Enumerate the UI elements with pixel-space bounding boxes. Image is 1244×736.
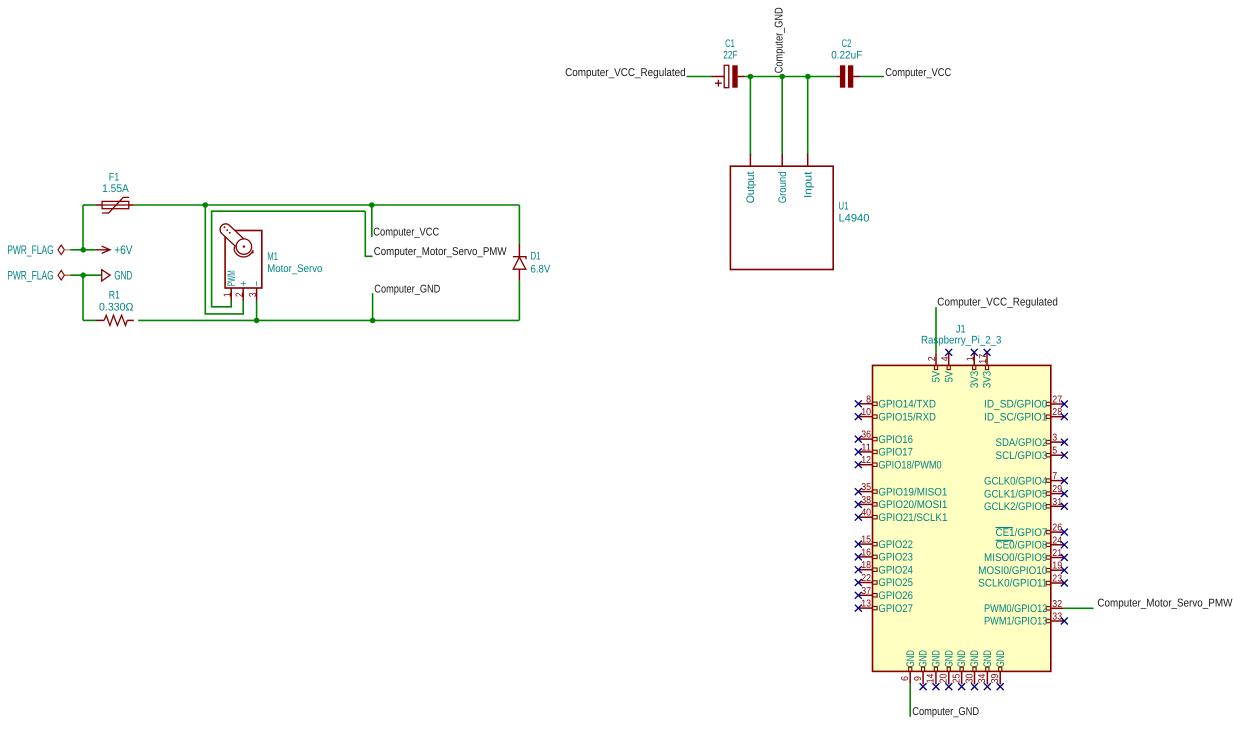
- no-connect J1 pin 15: [855, 541, 862, 548]
- no-connect J1 pin 4: [945, 349, 952, 356]
- svg-text:3: 3: [248, 292, 259, 297]
- power symbol +6V: [96, 246, 110, 253]
- U1 pin Ground: [781, 154, 783, 166]
- J1 pin 29 GCLK1/GPIO5: [1051, 493, 1064, 495]
- J1 pin 6 GND: [909, 671, 911, 684]
- no-connect J1 pin 33: [1061, 618, 1068, 625]
- C1 pin 2: [738, 76, 745, 78]
- wire D1 to bottom rail: [518, 281, 520, 321]
- J1 pin 18 GPIO24: [859, 569, 872, 571]
- svg-text:21: 21: [1052, 548, 1062, 559]
- wire C1 to C2 bus: [745, 76, 837, 78]
- svg-text:Computer_GND: Computer_GND: [374, 284, 440, 296]
- svg-text:M1: M1: [267, 251, 278, 263]
- J1 pin 3 SDA/GPIO2: [1051, 441, 1064, 443]
- no-connect J1 pin 23: [1061, 580, 1068, 587]
- wire PWR_FLAG to +6V: [70, 249, 96, 251]
- svg-text:GND: GND: [995, 650, 1007, 667]
- J1 pin 12 GPIO18/PWM0: [859, 464, 872, 466]
- svg-text:C2: C2: [842, 38, 852, 50]
- M1 pin 2 (+): [242, 288, 244, 301]
- C2 pin 2: [853, 76, 860, 78]
- J1 pin 11 GPIO17: [859, 451, 872, 453]
- power symbol GND: [102, 270, 110, 281]
- J1 pin 23 SCLK0/GPIO11: [1051, 582, 1064, 584]
- wire left rail lower vertical: [82, 275, 84, 320]
- no-connect J1 pin 35: [855, 488, 862, 495]
- svg-text:PWM1/GPIO13: PWM1/GPIO13: [984, 616, 1047, 628]
- no-connect J1 pin 37: [855, 592, 862, 599]
- svg-text:Computer_GND: Computer_GND: [912, 706, 979, 718]
- svg-text:GPIO16: GPIO16: [878, 434, 913, 446]
- J1 pin 4 5V: [948, 353, 950, 366]
- M1 pin 1 (PWM): [230, 288, 232, 301]
- svg-text:F1: F1: [109, 171, 120, 183]
- J1 pin 7 GCLK0/GPIO4: [1051, 480, 1064, 482]
- no-connect J1 pin 7: [1061, 477, 1068, 484]
- wire junction to U1 Ground pin: [781, 77, 783, 156]
- svg-text:SCLK0/GPIO11: SCLK0/GPIO11: [978, 578, 1047, 590]
- J1 pin 33 PWM1/GPIO13: [1051, 620, 1064, 622]
- svg-text:MOSI0/GPIO10: MOSI0/GPIO10: [978, 565, 1047, 577]
- no-connect J1 pin 20: [945, 683, 952, 690]
- wire Computer_VCC_Regulated to J1 5V: [935, 307, 937, 353]
- svg-text:GND: GND: [918, 650, 930, 667]
- U1 pin Input: [807, 154, 809, 166]
- svg-text:Input: Input: [802, 172, 814, 199]
- U1 pin Output: [749, 154, 751, 166]
- svg-text:Computer_VCC: Computer_VCC: [885, 67, 951, 79]
- no-connect J1 pin 27: [1061, 401, 1068, 408]
- capacitor C1: [724, 65, 729, 87]
- no-connect J1 pin 21: [1061, 554, 1068, 561]
- wire R1 to D1 bottom rail: [138, 319, 519, 321]
- svg-text:6.8V: 6.8V: [531, 263, 551, 275]
- svg-text:31: 31: [1052, 497, 1062, 508]
- svg-text:−: −: [251, 281, 263, 286]
- no-connect J1 pin 11: [855, 448, 862, 455]
- wire top rail down to D1: [518, 205, 520, 244]
- no-connect J1 pin 22: [855, 579, 862, 586]
- J1 pin 31 GCLK2/GPIO6: [1051, 505, 1064, 507]
- wire servo - to bottom rail: [256, 301, 258, 321]
- svg-text:Computer_VCC_Regulated: Computer_VCC_Regulated: [937, 296, 1058, 308]
- svg-text:3V3: 3V3: [969, 371, 981, 388]
- no-connect J1 pin 17: [984, 349, 991, 356]
- M1 servo horn: [220, 224, 248, 251]
- svg-text:12: 12: [861, 455, 871, 466]
- J1 pin 19 MOSI0/GPIO10: [1051, 569, 1064, 571]
- svg-text:0.330Ω: 0.330Ω: [99, 301, 133, 313]
- svg-text:GPIO20/MOSI1: GPIO20/MOSI1: [878, 499, 947, 511]
- wire F1 to D1 top rail: [134, 204, 520, 206]
- capacitor C2: [840, 65, 845, 87]
- no-connect J1 pin 18: [855, 566, 862, 573]
- svg-text:GPIO25: GPIO25: [878, 577, 913, 589]
- svg-text:36: 36: [861, 430, 871, 441]
- svg-text:GPIO27: GPIO27: [878, 603, 913, 615]
- svg-text:7: 7: [1052, 471, 1057, 482]
- svg-text:GND: GND: [969, 650, 981, 667]
- svg-text:22F: 22F: [723, 49, 737, 61]
- no-connect J1 pin 25: [958, 683, 965, 690]
- svg-text:GND: GND: [943, 650, 955, 667]
- fuse F1 (PTC): [96, 204, 134, 206]
- svg-text:27: 27: [1052, 395, 1062, 406]
- svg-text:18: 18: [861, 560, 871, 571]
- svg-text:CE1/GPIO7: CE1/GPIO7: [996, 527, 1048, 539]
- svg-text:19: 19: [1052, 561, 1062, 572]
- svg-text:Computer_Motor_Servo_PMW: Computer_Motor_Servo_PMW: [374, 246, 507, 258]
- regulator U1 L4940: [730, 166, 833, 269]
- svg-text:GPIO14/TXD: GPIO14/TXD: [878, 399, 936, 411]
- svg-text:U1: U1: [839, 201, 849, 213]
- svg-text:GND: GND: [114, 269, 132, 283]
- J1 pin 14 GND: [935, 671, 937, 684]
- no-connect J1 pin 14: [932, 683, 939, 690]
- svg-text:40: 40: [861, 508, 871, 519]
- no-connect J1 pin 3: [1061, 439, 1068, 446]
- svg-text:14: 14: [926, 673, 937, 683]
- svg-text:5V: 5V: [943, 370, 955, 382]
- J1 pin 27 ID_SD/GPIO0: [1051, 403, 1064, 405]
- svg-text:GPIO21/SCLK1: GPIO21/SCLK1: [878, 512, 947, 524]
- M1 pin 3 (&#8722;): [256, 288, 258, 301]
- svg-text:39: 39: [990, 673, 1001, 683]
- svg-text:30: 30: [964, 673, 975, 683]
- J1 pin 38 GPIO20/MOSI1: [859, 503, 872, 505]
- svg-text:16: 16: [861, 547, 871, 558]
- J1 pin 16 GPIO23: [859, 556, 872, 558]
- svg-text:2: 2: [234, 292, 245, 297]
- J1 pin 8 GPIO14/TXD: [859, 403, 872, 405]
- J1 pin 40 GPIO21/SCLK1: [859, 516, 872, 518]
- J1 pin 15 GPIO22: [859, 543, 872, 545]
- svg-text:4: 4: [940, 356, 951, 361]
- svg-text:34: 34: [977, 673, 988, 683]
- wire C2 to Computer_VCC: [860, 76, 884, 78]
- J1 pin 13 GPIO27: [859, 607, 872, 609]
- svg-text:2: 2: [927, 356, 938, 361]
- svg-text:37: 37: [861, 586, 871, 597]
- svg-text:GPIO15/RXD: GPIO15/RXD: [878, 411, 936, 423]
- no-connect J1 pin 8: [855, 400, 862, 407]
- wire J1 GND to Computer_GND: [909, 684, 911, 716]
- J1 pin 9 GND: [922, 671, 924, 684]
- wire PWR_FLAG to GND: [70, 274, 102, 276]
- no-connect J1 pin 13: [855, 605, 862, 612]
- svg-text:GND: GND: [905, 650, 917, 667]
- svg-text:3V3: 3V3: [982, 371, 994, 388]
- svg-text:GND: GND: [982, 650, 994, 667]
- J1 pin 36 GPIO16: [859, 438, 872, 440]
- J1 pin 26 CE1/GPIO7: [1051, 531, 1064, 533]
- svg-text:SDA/GPIO2: SDA/GPIO2: [996, 437, 1048, 449]
- M1 rotation arrow arc: [234, 247, 253, 257]
- junction at U1 output node: [748, 74, 754, 80]
- junction top rail servo supply: [203, 202, 209, 208]
- J1 pin 5 SCL/GPIO3: [1051, 454, 1064, 456]
- svg-text:L4940: L4940: [839, 213, 870, 225]
- J1 pin 1 3V3: [973, 353, 975, 366]
- svg-text:GPIO26: GPIO26: [878, 590, 913, 602]
- svg-text:CE0/GPIO8: CE0/GPIO8: [996, 540, 1048, 552]
- no-connect J1 pin 26: [1061, 529, 1068, 536]
- J1 pin 28 ID_SC/GPIO1: [1051, 416, 1064, 418]
- no-connect J1 pin 36: [855, 436, 862, 443]
- J1 pin 17 3V3: [986, 353, 988, 366]
- no-connect J1 pin 40: [855, 514, 862, 521]
- J1 pin 39 GND: [999, 671, 1001, 684]
- junction +6V: [80, 247, 86, 253]
- no-connect J1 pin 28: [1061, 413, 1068, 420]
- junction at U1 input node: [805, 74, 811, 80]
- PWR_FLAG pin 2: [64, 274, 70, 276]
- svg-text:Computer_VCC: Computer_VCC: [373, 226, 439, 238]
- svg-text:R1: R1: [109, 290, 120, 302]
- svg-text:GCLK0/GPIO4: GCLK0/GPIO4: [984, 475, 1047, 487]
- wire junction to U1 Output pin: [749, 77, 751, 156]
- svg-text:28: 28: [1052, 407, 1062, 418]
- no-connect J1 pin 29: [1061, 490, 1068, 497]
- svg-text:GPIO18/PWM0: GPIO18/PWM0: [878, 459, 941, 471]
- svg-text:Ground: Ground: [777, 172, 789, 204]
- wire left rail to R1: [83, 319, 97, 321]
- wire servo + supply loop: [205, 205, 243, 314]
- no-connect J1 pin 31: [1061, 503, 1068, 510]
- svg-text:ID_SC/GPIO1: ID_SC/GPIO1: [984, 411, 1047, 423]
- svg-text:29: 29: [1052, 484, 1062, 495]
- svg-text:13: 13: [861, 599, 871, 610]
- svg-text:Computer_GND: Computer_GND: [774, 7, 786, 73]
- J1 pin 25 GND: [961, 671, 963, 684]
- svg-text:24: 24: [1052, 535, 1062, 546]
- junction at Computer_GND node: [779, 74, 785, 80]
- junction bottom rail servo minus: [254, 318, 260, 324]
- svg-text:0.22uF: 0.22uF: [831, 49, 862, 61]
- svg-text:35: 35: [861, 482, 871, 493]
- no-connect J1 pin 1: [971, 349, 978, 356]
- svg-text:PWM: PWM: [226, 270, 238, 286]
- junction bottom rail Computer_GND: [370, 318, 376, 324]
- wire left rail to F1: [83, 204, 96, 206]
- no-connect J1 pin 30: [971, 683, 978, 690]
- no-connect J1 pin 5: [1061, 452, 1068, 459]
- wire junction to U1 Input pin: [807, 77, 809, 156]
- svg-text:Motor_Servo: Motor_Servo: [267, 263, 322, 275]
- svg-text:PWR_FLAG: PWR_FLAG: [7, 243, 54, 257]
- no-connect J1 pin 19: [1061, 567, 1068, 574]
- no-connect J1 pin 24: [1061, 541, 1068, 548]
- wire left rail upper vertical: [82, 205, 84, 250]
- J1 pin 35 GPIO19/MISO1: [859, 491, 872, 493]
- no-connect J1 pin 34: [984, 683, 991, 690]
- svg-text:11: 11: [861, 442, 871, 453]
- J1 pin 2 5V: [935, 353, 937, 366]
- svg-text:23: 23: [1052, 574, 1062, 585]
- svg-text:10: 10: [861, 407, 871, 418]
- svg-text:Computer_Motor_Servo_PMW: Computer_Motor_Servo_PMW: [1097, 598, 1232, 610]
- wire PMW net right leg: [365, 211, 372, 256]
- svg-text:GND: GND: [931, 650, 943, 667]
- PWR_FLAG pin: [64, 249, 70, 251]
- svg-text:GCLK2/GPIO6: GCLK2/GPIO6: [984, 501, 1047, 513]
- svg-text:5: 5: [1052, 446, 1057, 457]
- svg-text:6: 6: [900, 676, 911, 681]
- C1 pin 1: [712, 76, 725, 78]
- wire Computer_VCC_Regulated to C1: [687, 76, 712, 78]
- diode D1 zener: [518, 244, 520, 257]
- J1 pin 21 MISO0/GPIO9: [1051, 557, 1064, 559]
- junction GND: [80, 272, 86, 278]
- svg-text:ID_SD/GPIO0: ID_SD/GPIO0: [984, 399, 1047, 411]
- no-connect J1 pin 39: [997, 683, 1004, 690]
- svg-text:Raspberry_Pi_2_3: Raspberry_Pi_2_3: [921, 335, 1002, 347]
- wire to Computer_GND label: [372, 293, 374, 320]
- svg-text:33: 33: [1052, 612, 1062, 623]
- svg-text:1: 1: [222, 292, 233, 297]
- svg-text:+: +: [238, 281, 250, 286]
- svg-text:9: 9: [913, 676, 924, 681]
- svg-text:20: 20: [939, 673, 950, 683]
- svg-text:8: 8: [866, 394, 871, 405]
- svg-text:22: 22: [861, 573, 871, 584]
- no-connect J1 pin 38: [855, 501, 862, 508]
- J1 pin 10 GPIO15/RXD: [859, 416, 872, 418]
- no-connect J1 pin 12: [855, 461, 862, 468]
- svg-text:Computer_VCC_Regulated: Computer_VCC_Regulated: [565, 67, 686, 79]
- svg-text:3: 3: [1052, 433, 1057, 444]
- svg-text:PWM0/GPIO12: PWM0/GPIO12: [984, 603, 1047, 615]
- no-connect J1 pin 10: [855, 413, 862, 420]
- svg-text:+6V: +6V: [114, 243, 133, 257]
- svg-text:Output: Output: [745, 172, 757, 204]
- J1 pin 20 GND: [948, 671, 950, 684]
- svg-text:38: 38: [861, 495, 871, 506]
- resistor R1: [96, 319, 104, 321]
- J1 pin 22 GPIO25: [859, 582, 872, 584]
- svg-text:5V: 5V: [931, 370, 943, 382]
- J1 pin 34 GND: [986, 671, 988, 684]
- svg-text:GPIO22: GPIO22: [878, 539, 913, 551]
- wire to Computer_VCC label: [371, 205, 373, 237]
- wire PWM net loop: [212, 211, 366, 307]
- svg-text:15: 15: [861, 535, 871, 546]
- svg-text:1.55A: 1.55A: [102, 183, 129, 195]
- svg-text:GND: GND: [956, 650, 968, 667]
- svg-text:GCLK1/GPIO5: GCLK1/GPIO5: [984, 488, 1047, 500]
- connector J1 Raspberry_Pi_2_3: [873, 365, 1051, 671]
- J1 pin 37 GPIO26: [859, 594, 872, 596]
- svg-text:GPIO24: GPIO24: [878, 564, 913, 576]
- wire GPIO12 to Computer_Motor_Servo_PMW: [1064, 607, 1094, 609]
- svg-text:GPIO17: GPIO17: [878, 447, 913, 459]
- svg-text:GPIO23: GPIO23: [878, 552, 913, 564]
- no-connect J1 pin 9: [920, 683, 927, 690]
- svg-text:GPIO19/MISO1: GPIO19/MISO1: [878, 486, 947, 498]
- motor M1 Motor_Servo: [225, 231, 262, 289]
- svg-text:MISO0/GPIO9: MISO0/GPIO9: [984, 552, 1047, 564]
- no-connect J1 pin 16: [855, 553, 862, 560]
- svg-text:32: 32: [1052, 599, 1062, 610]
- svg-text:26: 26: [1052, 523, 1062, 534]
- J1 pin 24 CE0/GPIO8: [1051, 544, 1064, 546]
- J1 pin 32 PWM0/GPIO12: [1051, 607, 1064, 609]
- svg-text:PWR_FLAG: PWR_FLAG: [7, 269, 54, 283]
- svg-text:25: 25: [951, 673, 962, 683]
- J1 pin 30 GND: [974, 671, 976, 684]
- C2 pin 1: [836, 76, 840, 78]
- svg-text:D1: D1: [531, 251, 541, 263]
- svg-text:SCL/GPIO3: SCL/GPIO3: [996, 450, 1048, 462]
- svg-text:1: 1: [965, 356, 976, 361]
- junction top rail Computer_VCC: [369, 202, 375, 208]
- svg-text:C1: C1: [725, 38, 735, 50]
